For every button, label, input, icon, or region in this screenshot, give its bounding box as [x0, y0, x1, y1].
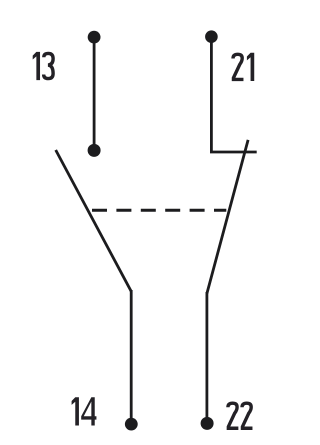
- terminal dot 22: [201, 417, 214, 430]
- terminal dot 14: [125, 418, 138, 431]
- wire from NC arm to terminal 22: [205, 292, 208, 423]
- fixed contact dot of NO contact 13-14: [88, 144, 101, 157]
- movable contact arm of NC contact 21-22: [207, 140, 248, 294]
- mechanical linkage (dashed) between contact arms: [92, 209, 226, 212]
- label pin 14: [72, 397, 97, 425]
- terminal dot 21: [205, 30, 218, 43]
- fixed contact bar of NC contact 21-22: [210, 151, 257, 154]
- wire from terminal 21 to fixed contact bar: [210, 37, 213, 152]
- wire from terminal 13 to fixed contact: [93, 37, 96, 150]
- label pin 21: [233, 53, 254, 81]
- terminal dot 13: [88, 31, 101, 44]
- wire from NO arm to terminal 14: [130, 290, 133, 424]
- movable contact arm of NO contact 13-14: [56, 150, 132, 291]
- label pin 13: [33, 52, 53, 80]
- label pin 22: [228, 403, 253, 428]
